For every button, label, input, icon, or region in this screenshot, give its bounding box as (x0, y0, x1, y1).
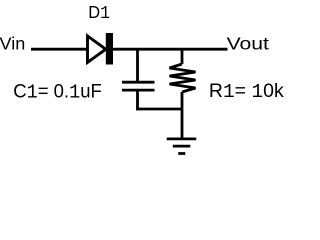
resistor R1 bottom lead (181, 92, 184, 109)
wire Vin to diode anode (31, 48, 88, 51)
capacitor C1 bottom lead (136, 90, 139, 110)
svg-text:Vout: Vout (227, 33, 269, 53)
capacitor C1 bottom plate (122, 89, 155, 92)
wire resistor bottom junction to ground (181, 109, 184, 139)
svg-text:C1= 0.1uF: C1= 0.1uF (13, 80, 102, 103)
svg-text:D1: D1 (88, 2, 110, 24)
wire junction to capacitor C1 top (136, 49, 139, 82)
ground symbol (167, 139, 197, 154)
svg-text:Vin: Vin (0, 33, 25, 53)
wire diode cathode to Vout (113, 48, 228, 51)
diode D1 cathode bar (106, 33, 113, 65)
capacitor C1 top plate (122, 81, 155, 84)
wire capacitor bottom to resistor bottom (136, 108, 182, 111)
wire junction to resistor R1 top lead (181, 49, 184, 64)
svg-text:R1= 10k: R1= 10k (209, 80, 284, 103)
resistor R1 zigzag body (170, 64, 196, 92)
diode D1 anode triangle (88, 36, 106, 62)
